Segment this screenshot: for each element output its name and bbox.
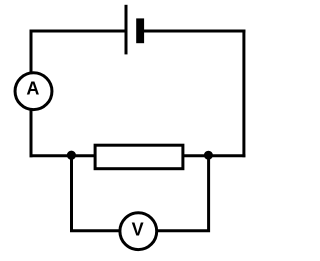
battery B1: long thin plate [125,5,128,55]
svg-text:A: A [26,79,39,99]
node: left junction dot [67,151,76,160]
resistor R1 [95,145,183,169]
voltmeter V1 [120,213,157,250]
wire: middle horizontal segment [30,154,246,157]
wire: voltmeter right branch [157,156,209,231]
wire: left vertical segment [30,30,33,158]
wire: top-right horizontal segment [140,30,245,33]
ammeter A1 [15,73,52,110]
wire: top-left horizontal segment [30,30,127,33]
wire: voltmeter left branch [72,156,121,231]
svg-text:V: V [132,220,144,240]
wire: right vertical segment [242,30,245,158]
node: right junction dot [204,151,213,160]
battery B1: short thick plate [136,18,144,43]
